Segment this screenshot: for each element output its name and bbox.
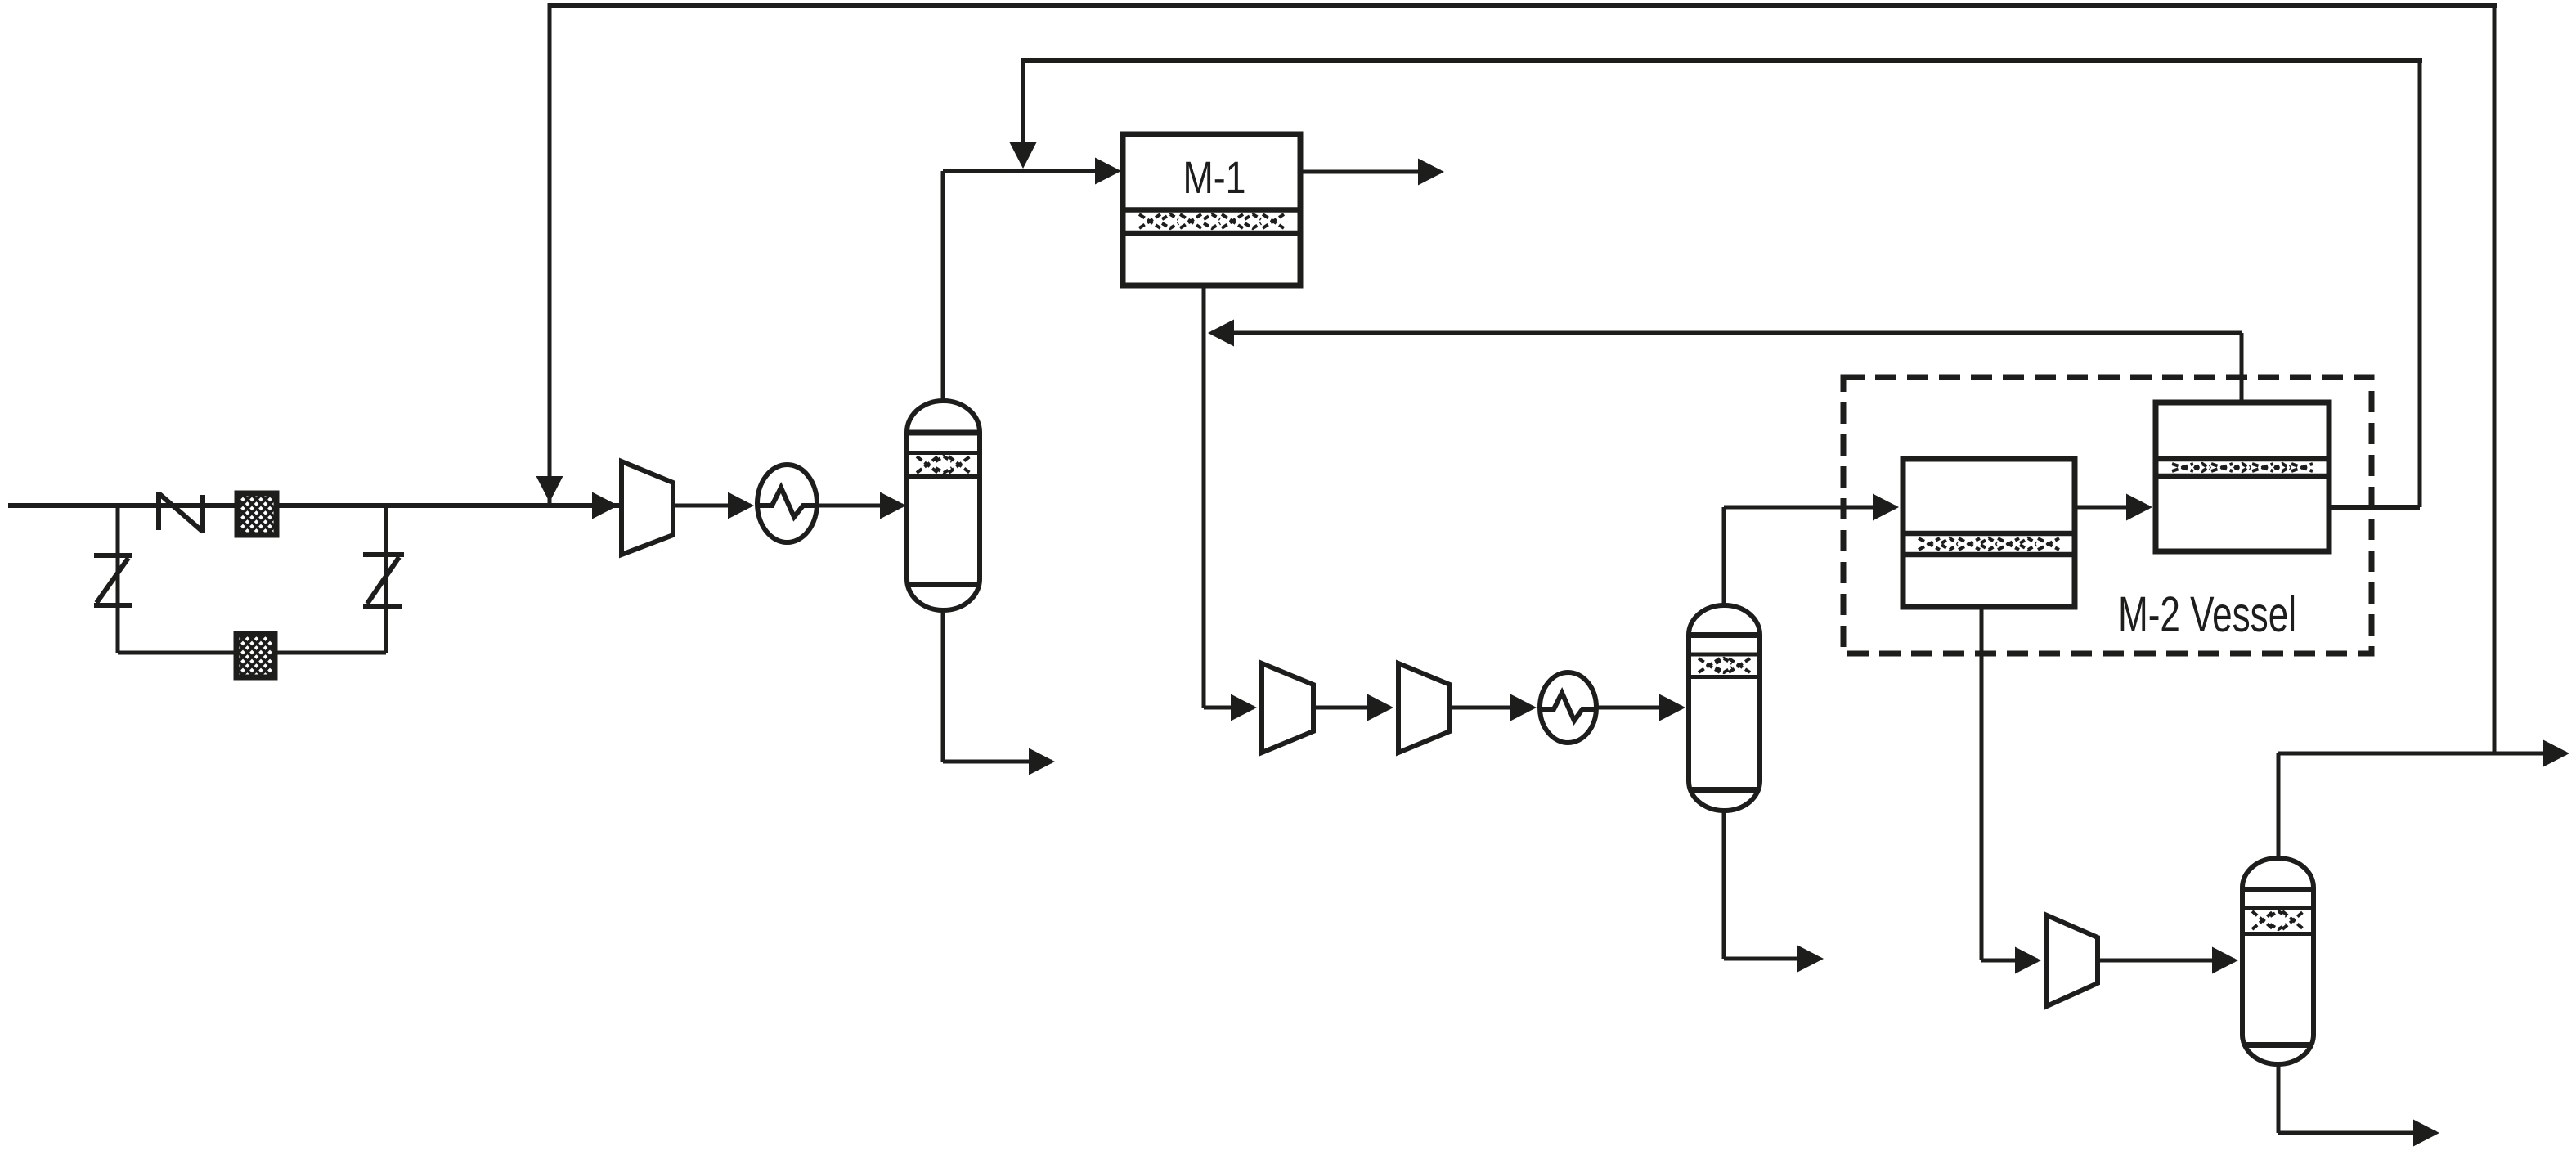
wire V-1 overhead to M-1	[941, 171, 945, 401]
arrow return (left)	[1208, 320, 1234, 347]
wire E2 to V-2	[1596, 706, 1682, 710]
arrow M-1 outlet	[1418, 159, 1444, 186]
wire between M-2 elements	[2075, 506, 2149, 510]
vessel V-2	[1689, 605, 1760, 811]
arrow into K4	[2015, 947, 2041, 974]
wire V-2 overhead	[1722, 507, 1726, 605]
valve V3 (right branch, Z symbol)	[363, 552, 404, 557]
vessel V-1	[907, 401, 980, 610]
dashed boundary M-2 Vessel	[1843, 377, 2372, 654]
arrow into K2	[1231, 694, 1257, 721]
arrow V-3 bottoms out	[2413, 1120, 2439, 1147]
membrane M-2 right element	[2156, 402, 2329, 551]
wire M-2 outlet to riser	[2329, 505, 2420, 510]
compressor K3	[1398, 663, 1450, 753]
valve V1 (inline, N symbol)	[156, 492, 161, 530]
arrow into V-2	[1659, 694, 1685, 721]
heat exchanger E1	[757, 465, 817, 542]
arrow into K1	[592, 492, 618, 519]
arrow into E2	[1510, 694, 1537, 721]
wire recycle drop to M-1 feed	[1021, 58, 1025, 165]
arrow into V-3	[2212, 947, 2238, 974]
wire K1 to E1	[673, 504, 751, 508]
compressor K4	[2047, 915, 2098, 1006]
wire right downcomer	[2493, 3, 2497, 753]
arrow into E1	[728, 492, 754, 519]
wire return from M-2 to permeate line	[1211, 331, 2242, 335]
filter F1	[237, 493, 276, 535]
wire M-1 outlet	[1300, 170, 1441, 174]
arrow V-2 bottoms out	[1797, 946, 1824, 973]
membrane module M-1	[1123, 134, 1300, 285]
wire left branch vertical	[116, 506, 120, 653]
arrow into K3	[1367, 694, 1393, 721]
wire V-1 bottoms	[941, 610, 945, 762]
arrow into M-2 left box	[1873, 494, 1899, 521]
wire recycle riser at feed junction	[548, 3, 552, 506]
wire permeate to K2	[1204, 706, 1254, 710]
wire top recycle line 2	[1023, 58, 2422, 63]
wire top recycle line 1	[550, 3, 2497, 8]
vessel V-3	[2242, 858, 2313, 1064]
heat exchanger E2	[1540, 672, 1596, 743]
svg-text:M-1: M-1	[1183, 151, 1246, 203]
arrow into M-1	[1095, 158, 1121, 185]
compressor K2	[1262, 663, 1313, 753]
valve V2 (left branch, Z symbol)	[94, 553, 132, 558]
wire M-2 right box top nozzle	[2240, 333, 2244, 402]
arrow product out right	[2543, 740, 2569, 767]
arrow onto M-1 feed line (down)	[1010, 142, 1037, 169]
wire V-3 overhead	[2277, 753, 2281, 858]
membrane M-2 left element	[1903, 459, 2075, 607]
wire M-2 permeate down	[1980, 607, 1984, 960]
wire K3 to E2	[1450, 706, 1533, 710]
filter F2	[236, 634, 275, 677]
wire bypass line	[118, 651, 386, 655]
wire K4 to V-3	[2098, 959, 2235, 963]
wire E1 to V-1	[817, 504, 903, 508]
compressor K1	[622, 461, 673, 555]
wire right branch vertical	[384, 506, 388, 653]
wire recycle riser from M-2	[2418, 58, 2422, 507]
arrow V-1 bottoms out	[1029, 748, 1055, 775]
wire K2 to K3	[1313, 706, 1390, 710]
wire feed line	[8, 503, 620, 508]
wire V-3 bottoms	[2277, 1064, 2281, 1133]
arrow into M-2 right element	[2126, 494, 2152, 521]
wire V-2 bottoms	[1722, 811, 1726, 959]
arrow into feed junction (down)	[536, 476, 563, 502]
wire M-1 permeate down	[1202, 285, 1206, 708]
svg-text:M-2 Vessel: M-2 Vessel	[2118, 586, 2296, 642]
arrow into V-1	[880, 492, 906, 519]
